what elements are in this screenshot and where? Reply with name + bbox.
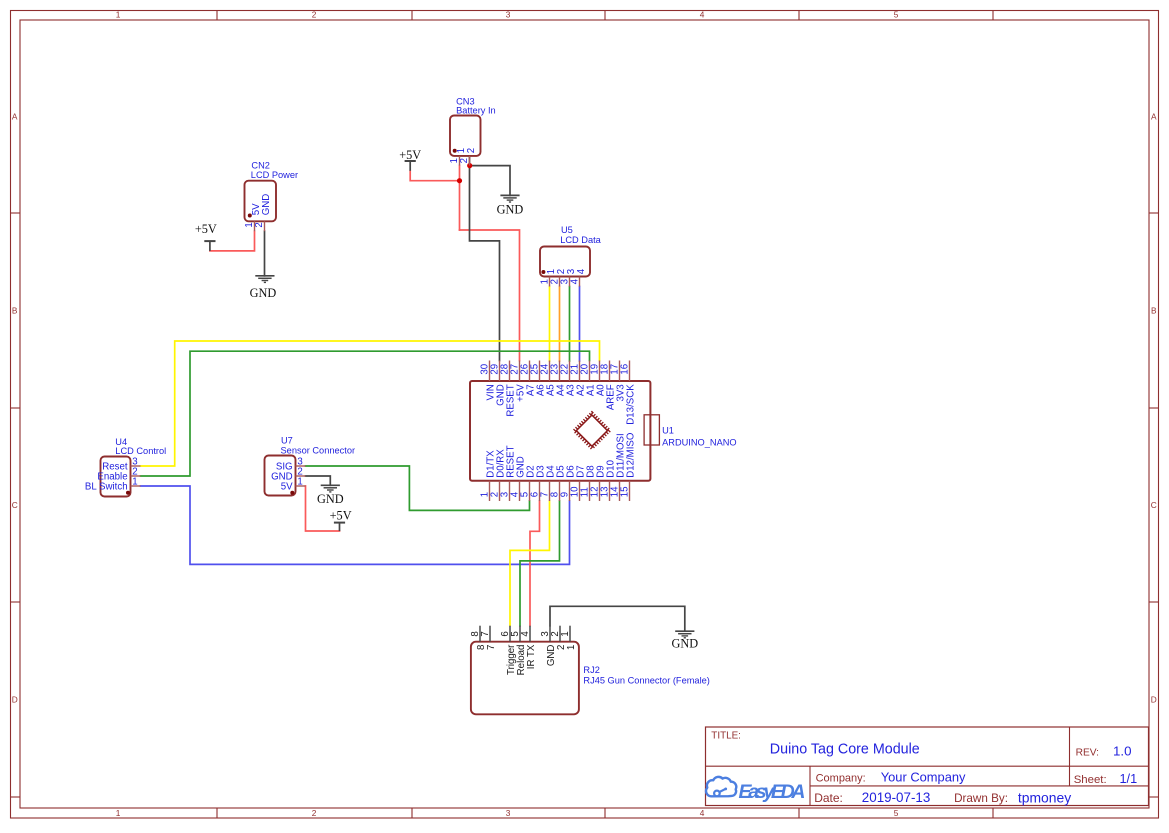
- svg-text:2019-07-13: 2019-07-13: [862, 790, 931, 805]
- EasyEDA logo: [706, 777, 805, 803]
- svg-text:GND: GND: [317, 492, 344, 506]
- svg-text:LCD Data: LCD Data: [560, 235, 601, 245]
- connector CN3 Battery In: [449, 97, 495, 166]
- svg-text:1: 1: [116, 808, 121, 818]
- svg-text:1.0: 1.0: [1113, 744, 1132, 759]
- svg-text:4: 4: [700, 10, 705, 20]
- U1 side tab: [644, 415, 659, 445]
- wire: +5V net red down to U1 pin 27: [460, 230, 520, 361]
- svg-text:IR TX: IR TX: [526, 644, 537, 669]
- svg-text:2: 2: [254, 222, 265, 227]
- svg-text:Company:: Company:: [816, 773, 866, 785]
- svg-text:1: 1: [132, 476, 137, 487]
- connector RJ2 RJ45 Gun Connector: [470, 626, 710, 715]
- svg-text:RJ45 Gun Connector (Female): RJ45 Gun Connector (Female): [583, 676, 709, 686]
- svg-text:D12/MISO: D12/MISO: [626, 432, 637, 478]
- svg-text:tpmoney: tpmoney: [1018, 790, 1071, 806]
- svg-text:U5: U5: [561, 225, 573, 235]
- svg-text:7: 7: [480, 631, 491, 636]
- svg-text:15: 15: [619, 486, 630, 497]
- svg-text:EasyEDA: EasyEDA: [739, 781, 806, 803]
- svg-text:GND: GND: [250, 286, 277, 300]
- svg-text:D13/SCK: D13/SCK: [626, 384, 637, 425]
- svg-text:1: 1: [297, 476, 302, 487]
- wire: U7 SIG to U1 pin5 green: [306, 466, 530, 510]
- svg-text:+5V: +5V: [399, 148, 421, 162]
- svg-text:D: D: [1151, 695, 1157, 705]
- wire: GND net black down to U1 pin 29: [470, 166, 500, 361]
- wire: GND net CN3 pin2 to ground symbol black: [470, 156, 511, 196]
- svg-text:2: 2: [459, 158, 470, 163]
- wire: U7 GND to ground symbol black: [306, 476, 331, 485]
- svg-text:Battery In: Battery In: [456, 106, 496, 116]
- svg-text:U7: U7: [281, 436, 293, 446]
- svg-text:1: 1: [560, 631, 571, 636]
- svg-text:LCD Control: LCD Control: [115, 446, 166, 456]
- svg-text:D: D: [12, 695, 18, 705]
- wire: U1 pin7 D4 to RJ2 pin6 yellow: [510, 501, 550, 626]
- svg-text:Your Company: Your Company: [881, 770, 966, 785]
- svg-text:5: 5: [894, 10, 899, 20]
- svg-text:2: 2: [312, 10, 317, 20]
- svg-text:4: 4: [520, 631, 531, 637]
- svg-text:TITLE:: TITLE:: [711, 730, 741, 741]
- wire: U4 BL Switch to U1 pin9 blue: [141, 486, 570, 564]
- svg-text:REV:: REV:: [1076, 748, 1099, 759]
- svg-text:C: C: [1151, 500, 1157, 510]
- wire: U7 5V to +5V symbol red: [306, 486, 340, 531]
- svg-text:BL Switch: BL Switch: [85, 482, 128, 493]
- svg-text:A: A: [1151, 112, 1157, 122]
- svg-text:GND: GND: [497, 203, 524, 217]
- wire: U5 pin4 to U1 pin21 blue: [579, 287, 581, 362]
- +5V symbol near CN2: [195, 222, 217, 251]
- svg-text:Sensor Connector: Sensor Connector: [281, 446, 356, 456]
- svg-text:Date:: Date:: [814, 791, 843, 805]
- svg-text:RJ2: RJ2: [583, 665, 599, 675]
- +5V symbol near CN3: [399, 148, 421, 171]
- svg-text:ARDUINO_NANO: ARDUINO_NANO: [662, 437, 737, 447]
- U1 bottom pins 1..15: [479, 432, 636, 501]
- svg-text:16: 16: [619, 364, 630, 375]
- +5V symbol near U7: [330, 509, 352, 532]
- svg-text:Sheet:: Sheet:: [1074, 774, 1107, 786]
- svg-text:U1: U1: [662, 426, 674, 436]
- svg-text:GND: GND: [261, 194, 272, 216]
- svg-text:1/1: 1/1: [1120, 772, 1138, 786]
- wire: U5 pin3 to U1 pin22 green: [569, 287, 571, 362]
- svg-text:2: 2: [312, 808, 317, 818]
- svg-text:5V: 5V: [281, 482, 293, 493]
- U1 chip icon: [574, 413, 610, 449]
- op-amp/IC U1 ARDUINO_NANO: [470, 381, 650, 481]
- svg-text:LCD Power: LCD Power: [251, 170, 298, 180]
- svg-text:7: 7: [486, 645, 497, 650]
- wire: U5 pin1 to U1 pin24 yellow: [549, 287, 551, 362]
- svg-text:+5V: +5V: [330, 509, 352, 523]
- connector CN2 LCD Power: [244, 161, 298, 232]
- wire: +5V net CN3 pin1 vertical red: [459, 166, 461, 231]
- ground GND symbol near CN3: [497, 195, 524, 216]
- svg-text:4: 4: [576, 268, 587, 274]
- svg-text:A: A: [12, 112, 18, 122]
- U1 labels: [662, 426, 737, 448]
- svg-text:4: 4: [700, 808, 705, 818]
- svg-text:3: 3: [506, 808, 511, 818]
- junction at CN3 pin2 GND net: [467, 163, 472, 168]
- connector U4 LCD Control: [85, 437, 166, 496]
- svg-text:Drawn By:: Drawn By:: [954, 792, 1008, 805]
- connector U5 LCD Data: [539, 225, 601, 287]
- title block: [706, 727, 1149, 806]
- svg-text:3: 3: [506, 10, 511, 20]
- ground GND symbol near CN2: [250, 276, 277, 300]
- wire: RJ2 pin3 to ground symbol black: [550, 606, 685, 631]
- svg-text:GND: GND: [671, 636, 698, 650]
- svg-text:CN2: CN2: [251, 161, 270, 171]
- wire: U5 pin2 to U1 pin23 orange: [559, 287, 561, 362]
- svg-text:1: 1: [566, 645, 577, 650]
- wire: U4 Enable to U1 pin20 green: [141, 351, 590, 476]
- svg-text:2: 2: [466, 148, 477, 153]
- svg-text:B: B: [12, 306, 18, 316]
- wire: GND net CN2 black: [264, 231, 266, 276]
- svg-text:5: 5: [894, 808, 899, 818]
- wire: U1 pin6 D3 to RJ2 pin4 red: [530, 501, 540, 626]
- wire: U1 pin8 D5 to RJ2 pin5 green: [520, 501, 560, 626]
- svg-text:Duino Tag Core Module: Duino Tag Core Module: [770, 742, 920, 758]
- wire: U4 Reset to U1 pin19 yellow: [141, 341, 600, 466]
- wire: +5V net CN3 red (to +5V symbol): [410, 171, 459, 181]
- connector U7 Sensor Connector: [265, 436, 356, 496]
- svg-text:+5V: +5V: [195, 222, 217, 236]
- ground GND symbol near U7: [317, 485, 344, 506]
- junction at CN3 pin1 +5V net: [457, 178, 462, 183]
- wire: +5V net CN2 red: [210, 231, 255, 251]
- ground GND symbol near RJ2: [671, 631, 698, 650]
- svg-text:B: B: [1151, 306, 1157, 316]
- svg-text:1: 1: [116, 10, 121, 20]
- svg-text:C: C: [12, 500, 18, 510]
- svg-text:4: 4: [569, 278, 580, 284]
- U1 top pins 30..16: [479, 361, 636, 425]
